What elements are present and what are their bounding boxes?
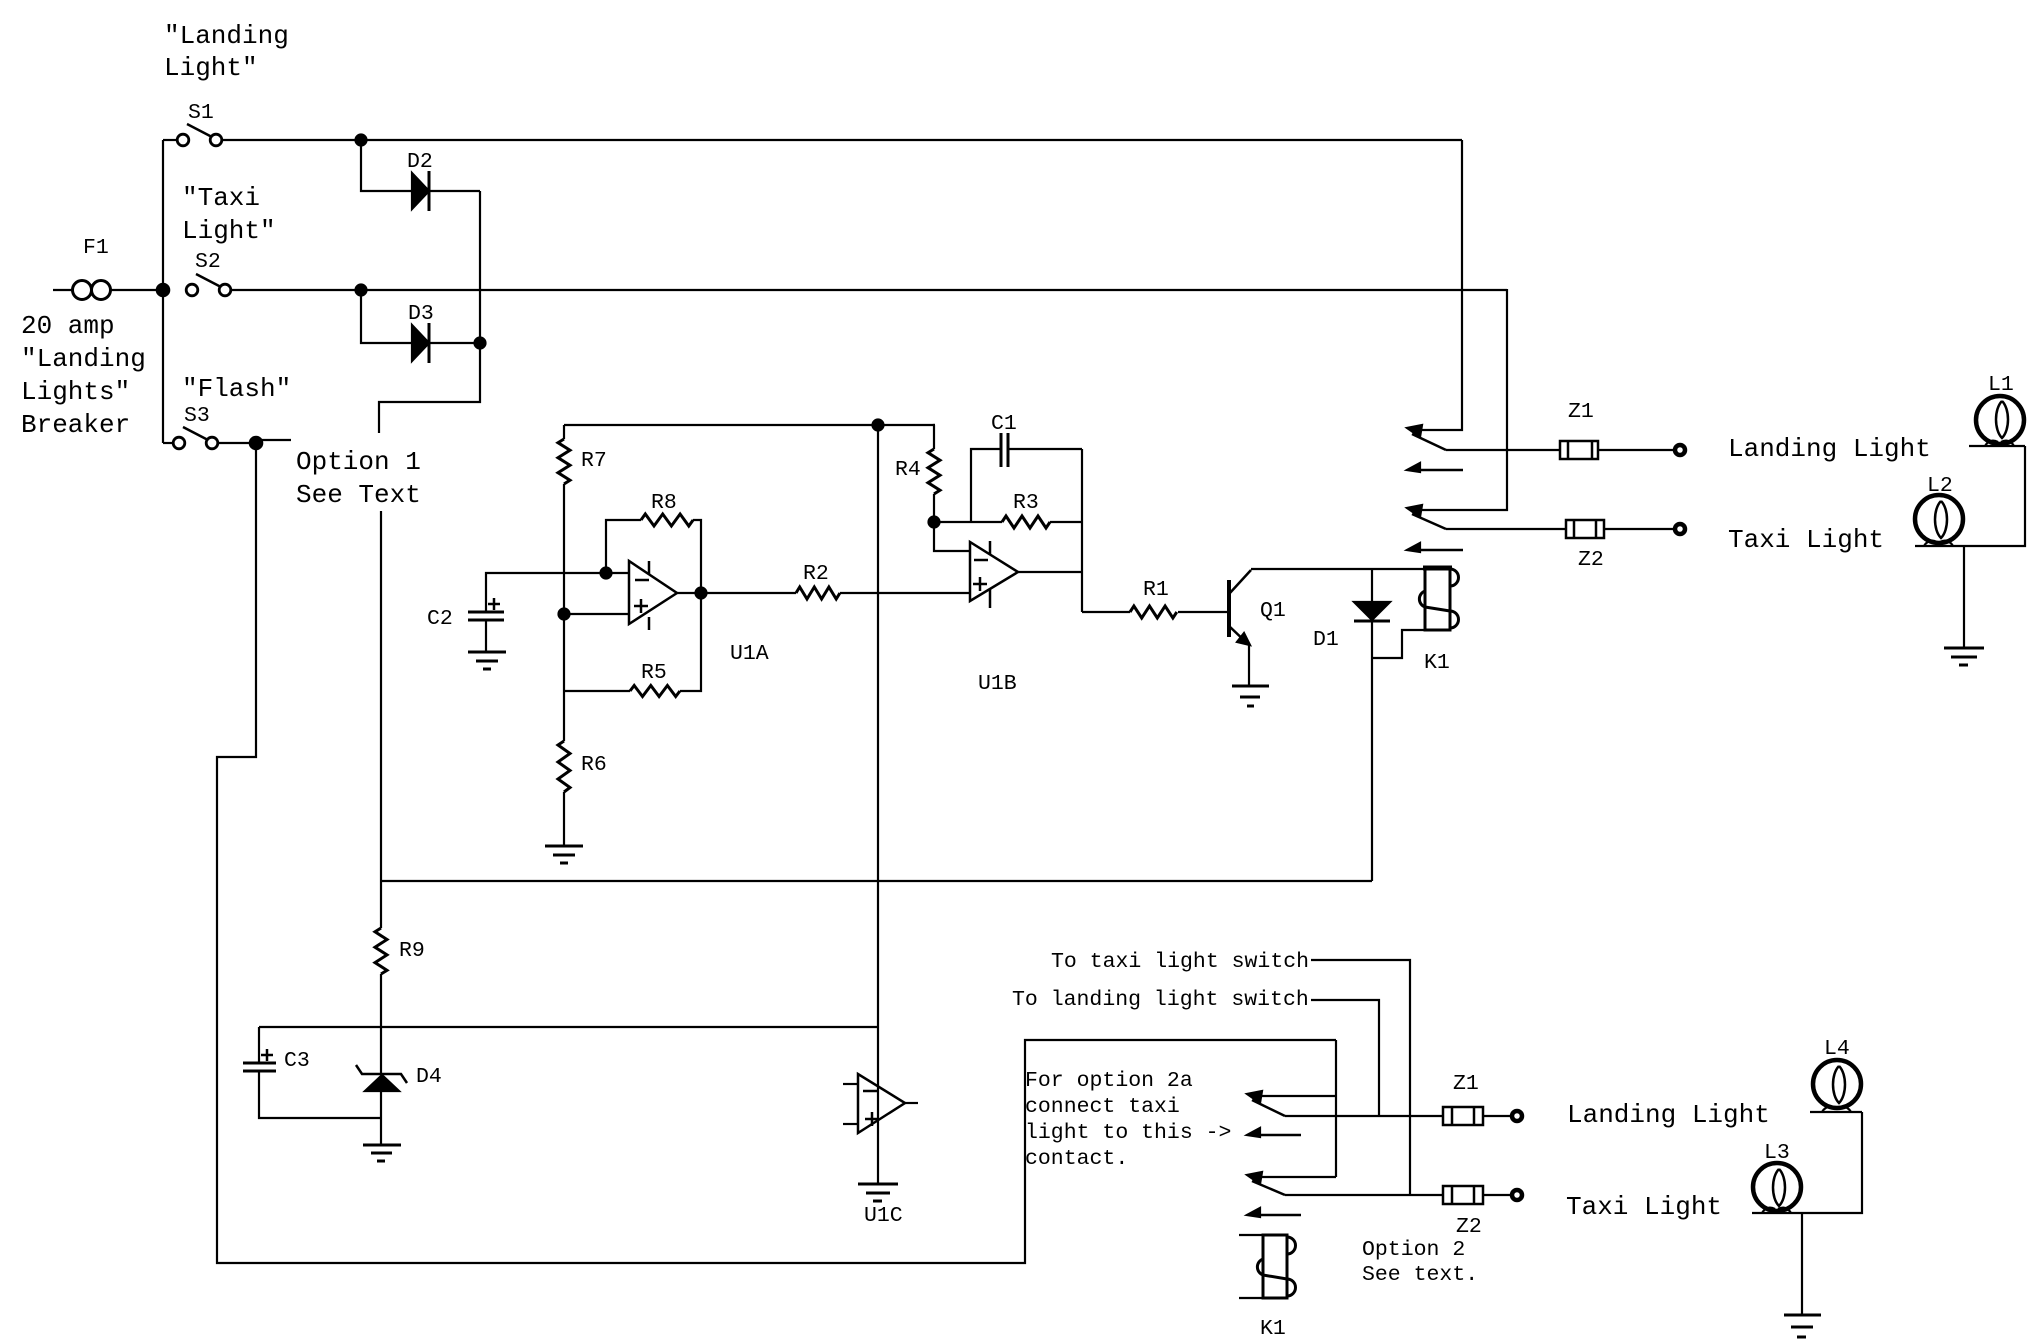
label U1B (978, 672, 1017, 696)
svg-text:For option 2a: For option 2a (1025, 1069, 1193, 1093)
label D2 (407, 150, 433, 174)
svg-text:Light": Light" (182, 216, 276, 246)
relay K1 contact 1 arm (1412, 434, 1446, 450)
label S2 (195, 250, 221, 274)
node S1 D2 tap (356, 135, 367, 146)
fuse Z1 (1560, 441, 1598, 459)
op-amp U1C (858, 1074, 905, 1133)
node U1A output junction (696, 588, 707, 599)
node R8 left junction (601, 568, 612, 579)
svg-text:R3: R3 (1013, 491, 1039, 515)
wire U1C long vertical (877, 425, 879, 1184)
svg-text:Z2: Z2 (1456, 1215, 1482, 1239)
fuse Z2 (1566, 520, 1604, 538)
label C1 (991, 412, 1017, 436)
label F1 (83, 236, 109, 260)
ground lamps L1 L2 (1944, 648, 1984, 665)
node S2 D3 tap (356, 285, 367, 296)
wire R9 to D4 (380, 974, 382, 1074)
node bus input junction (157, 284, 169, 296)
wire contact 2 to Z2 (1446, 528, 1566, 530)
wire U1A plus input (564, 613, 629, 615)
wire input left stub (53, 289, 73, 291)
wire U1C output stub (905, 1102, 918, 1104)
wire to R1 (1082, 611, 1130, 613)
relay K1 fixed contact 1 (1407, 463, 1420, 472)
label D3 (408, 302, 434, 326)
svg-text:D3: D3 (408, 302, 434, 326)
wire U1A output (677, 592, 796, 594)
svg-text:Landing Light: Landing Light (1728, 434, 1931, 464)
label R9 (399, 939, 425, 963)
svg-text:D1: D1 (1313, 628, 1339, 652)
svg-text:See Text: See Text (296, 480, 421, 510)
svg-text:F1: F1 (83, 236, 109, 260)
label R1 (1143, 578, 1169, 602)
wire diode cathode bus down to option jog (379, 191, 480, 433)
label "Landing Light" switch name (164, 21, 289, 83)
label "Taxi Light" switch name (182, 183, 276, 246)
relay fixed contact 3 (1247, 1128, 1260, 1137)
label To taxi light switch (1051, 950, 1309, 974)
wire D2 cathode (429, 190, 480, 192)
wire bus to S1 (163, 139, 178, 141)
terminal landing light lower (1512, 1111, 1522, 1121)
wire D1 K1 return row (381, 880, 1372, 882)
label R7 (581, 449, 607, 473)
label R3 (1013, 491, 1039, 515)
svg-text:S1: S1 (188, 101, 214, 125)
relay coil K1 (1419, 568, 1458, 630)
resistor R7 (563, 425, 565, 439)
zener diode D4 (356, 1065, 407, 1083)
svg-text:Taxi Light: Taxi Light (1728, 525, 1884, 555)
wire lamp ground drop (1963, 546, 1965, 648)
terminal taxi light lower (1512, 1190, 1522, 1200)
svg-text:R1: R1 (1143, 578, 1169, 602)
svg-text:C3: C3 (284, 1049, 310, 1073)
wire K1 lower coil leads (1239, 1234, 1263, 1236)
wire contact 4 to Z2 (1285, 1194, 1443, 1196)
wire option 1 vertical to R9 (380, 511, 382, 928)
resistor R5 (564, 690, 630, 692)
ground lamps L3 L4 (1784, 1315, 1821, 1337)
label Landing Light (1728, 434, 1931, 464)
op-amp U1B (970, 542, 1018, 601)
label R5 (641, 661, 667, 685)
op-amp U1A (629, 561, 677, 624)
svg-text:S2: S2 (195, 250, 221, 274)
wire to landing light switch (1311, 1000, 1379, 1116)
wire C1 top right (1008, 448, 1082, 450)
resistor R4 (934, 425, 935, 449)
diode D3 (412, 325, 429, 361)
svg-text:K1: K1 (1424, 651, 1450, 675)
resistor R6 (563, 691, 565, 741)
wire S1 output row (223, 139, 1462, 141)
svg-text:Z2: Z2 (1578, 548, 1604, 572)
svg-text:Landing Light: Landing Light (1567, 1100, 1770, 1130)
node D2 D3 cathode junction (475, 338, 486, 349)
svg-text:C1: C1 (991, 412, 1017, 436)
wire Z2 to terminal (1604, 528, 1673, 530)
svg-text:S3: S3 (184, 404, 210, 428)
svg-text:20 amp: 20 amp (21, 311, 115, 341)
wire option 2 relay common vertical (1335, 1040, 1337, 1177)
label D4 (416, 1065, 442, 1089)
svg-text:Option 2: Option 2 (1362, 1238, 1465, 1262)
label "Flash" switch name (182, 374, 291, 404)
svg-text:To landing light switch: To landing light switch (1012, 988, 1309, 1012)
wire left bus vertical (162, 140, 164, 443)
wire option 2 NC contact 2 (1253, 1176, 1336, 1178)
svg-text:"Landing: "Landing (21, 344, 146, 374)
node S3 junction (250, 437, 262, 449)
svg-text:R6: R6 (581, 753, 607, 777)
node U1A plus input junction (559, 609, 570, 620)
wire D3 cathode (429, 342, 480, 344)
svg-text:"Landing: "Landing (164, 21, 289, 51)
wire D2 anode drop (361, 140, 412, 191)
capacitor C1 (1000, 433, 1003, 467)
svg-text:Lights": Lights" (21, 377, 130, 407)
relay K1 contact 2 arm (1412, 514, 1446, 529)
svg-text:R4: R4 (895, 458, 921, 482)
label U1C (864, 1204, 903, 1228)
relay coil K1 lower (1257, 1235, 1295, 1298)
wire S1 row drop to relay contact 1 (1411, 140, 1462, 430)
wire S2 row drop to relay contact 2 (1411, 289, 1507, 510)
label L4 (1824, 1037, 1850, 1061)
relay contact 4 arm (1252, 1181, 1285, 1195)
wire K1 coil return (1372, 630, 1425, 658)
wire Q1 collector row (1251, 568, 1425, 570)
wire F1 to bus (110, 289, 163, 291)
svg-text:Breaker: Breaker (21, 410, 130, 440)
wire D3 anode drop (361, 290, 412, 343)
wire to taxi light switch (1311, 960, 1410, 1195)
terminal landing light (1675, 445, 1685, 455)
svg-text:U1B: U1B (978, 672, 1017, 696)
lamp L4 (1813, 1060, 1861, 1108)
label L2 (1927, 474, 1953, 498)
label 20 amp "Landing Lights" Breaker (21, 311, 146, 440)
svg-text:Z1: Z1 (1453, 1072, 1479, 1096)
ground U1C (858, 1184, 898, 1201)
svg-text:R7: R7 (581, 449, 607, 473)
wire Z2 lower to terminal (1483, 1194, 1511, 1196)
wire contact 1 to Z1 (1446, 449, 1560, 451)
capacitor C2 (468, 611, 504, 614)
relay contact 3 arm (1252, 1100, 1285, 1116)
svg-text:See text.: See text. (1362, 1263, 1478, 1287)
label Taxi Light lower (1566, 1192, 1722, 1222)
wire Z1 lower to terminal (1483, 1115, 1511, 1117)
resistor R2 (796, 587, 840, 599)
label C3 (284, 1049, 310, 1073)
wire option 2 NC contact 1 (1253, 1095, 1336, 1097)
svg-text:R2: R2 (803, 562, 829, 586)
label L1 (1988, 373, 2014, 397)
label C2 (427, 607, 453, 631)
wire S2 output row (231, 289, 1507, 291)
svg-text:D4: D4 (416, 1065, 442, 1089)
label R2 (803, 562, 829, 586)
wire C2 to inverting input (486, 573, 629, 612)
switch S1 (177, 134, 189, 146)
svg-text:D2: D2 (407, 150, 433, 174)
wire junction to U1B minus input (934, 522, 970, 551)
resistor R1 (1130, 606, 1177, 618)
relay K1 contact 1 arrowhead (1407, 425, 1422, 437)
label S1 (188, 101, 214, 125)
svg-text:Light": Light" (164, 53, 258, 83)
label R6 (581, 753, 607, 777)
wire L4 bottom (1810, 1111, 1862, 1113)
svg-text:R9: R9 (399, 939, 425, 963)
label R8 (651, 491, 677, 515)
svg-text:To taxi light switch: To taxi light switch (1051, 950, 1309, 974)
wire lamp L3 L4 ground drop (1801, 1213, 1803, 1315)
label U1A (730, 642, 769, 666)
label R4 (895, 458, 921, 482)
svg-text:light to this ->: light to this -> (1025, 1121, 1231, 1145)
node R4 bottom junction (929, 517, 940, 528)
wire U1C plus stub (843, 1123, 858, 1125)
wire L3 feet (1762, 1208, 1775, 1213)
switch S2 (186, 284, 198, 296)
wire C3 D4 top row (259, 1026, 878, 1028)
transistor Q1 (1227, 580, 1231, 637)
wire S3 flash loop (217, 443, 1336, 1263)
wire S3 output (218, 442, 256, 444)
svg-text:L2: L2 (1927, 474, 1953, 498)
svg-text:R8: R8 (651, 491, 677, 515)
svg-text:L1: L1 (1988, 373, 2014, 397)
wire R7 to plus input (563, 484, 565, 691)
svg-text:Z1: Z1 (1568, 400, 1594, 424)
wire option 1 stub (257, 440, 291, 443)
wire L1 to L2 row (1915, 446, 2025, 546)
label Taxi Light (1728, 525, 1884, 555)
wire L4 to L3 row (1752, 1112, 1862, 1213)
label Option 2 See text (1362, 1238, 1478, 1287)
svg-text:L4: L4 (1824, 1037, 1850, 1061)
label Z2 lower (1456, 1215, 1482, 1239)
svg-text:U1C: U1C (864, 1204, 903, 1228)
label Z1 (1568, 400, 1594, 424)
label C2 plus (488, 598, 500, 610)
svg-text:K1: K1 (1260, 1317, 1286, 1341)
relay K1 fixed contact 2 (1407, 543, 1420, 552)
svg-text:R5: R5 (641, 661, 667, 685)
diode D1 (1371, 569, 1373, 602)
node supply rail to U1C tap (873, 420, 884, 431)
wire contact 3 to Z1 (1285, 1115, 1443, 1117)
terminal taxi light (1675, 524, 1685, 534)
label D1 (1313, 628, 1339, 652)
wire bus to S3 (163, 442, 173, 444)
svg-text:contact.: contact. (1025, 1147, 1128, 1171)
diode D2 (412, 173, 429, 209)
label For option 2a note (1025, 1069, 1231, 1171)
wire Q1 emitter to ground (1248, 645, 1250, 686)
fuse Z1 lower (1443, 1107, 1483, 1125)
label Z1 lower (1453, 1072, 1479, 1096)
svg-text:U1A: U1A (730, 642, 769, 666)
label Q1 (1260, 599, 1286, 623)
svg-text:"Taxi: "Taxi (182, 183, 260, 213)
capacitor C3 (258, 1027, 260, 1063)
label Option 1 See Text (296, 447, 421, 510)
label Landing Light lower (1567, 1100, 1770, 1130)
label L3 (1764, 1141, 1790, 1165)
wire R3 row (934, 521, 1002, 523)
fuse Z2 lower (1443, 1186, 1483, 1204)
svg-text:Option 1: Option 1 (296, 447, 421, 477)
svg-text:"Flash": "Flash" (182, 374, 291, 404)
wire U1B feedback vertical (1081, 449, 1083, 612)
svg-text:Taxi Light: Taxi Light (1566, 1192, 1722, 1222)
svg-text:connect taxi: connect taxi (1025, 1095, 1180, 1119)
ground Q1 (1232, 686, 1269, 706)
relay contact 3 arrowhead (1247, 1091, 1262, 1103)
label K1 (1424, 651, 1450, 675)
lamp L2 (1915, 495, 1963, 543)
breaker F1 (73, 281, 111, 300)
wire L1 bottom (1969, 445, 2025, 447)
switch S3 (173, 437, 185, 449)
lamp L3 (1753, 1163, 1801, 1211)
label S3 (184, 404, 210, 428)
wire U1C minus stub (843, 1083, 858, 1085)
label C3 plus (261, 1049, 273, 1061)
label Z2 (1578, 548, 1604, 572)
svg-text:Q1: Q1 (1260, 599, 1286, 623)
ground C2 (468, 652, 506, 669)
wire L2 feet (1924, 541, 1937, 546)
relay contact 4 arrowhead (1247, 1172, 1262, 1184)
resistor R8 (606, 520, 641, 573)
relay K1 contact 2 arrowhead (1407, 505, 1422, 517)
lamp L1 (1976, 396, 2024, 444)
svg-text:L3: L3 (1764, 1141, 1790, 1165)
wire top supply rail (564, 424, 935, 426)
ground D4 (363, 1145, 401, 1161)
label To landing light switch (1012, 988, 1309, 1012)
label K1 lower (1260, 1317, 1286, 1341)
svg-text:C2: C2 (427, 607, 453, 631)
resistor R3 (1002, 516, 1050, 528)
wire U1B output (1018, 571, 1082, 573)
capacitor C1 loop left (971, 449, 1001, 522)
relay fixed contact 4 (1247, 1208, 1260, 1217)
ground R6 (545, 846, 583, 863)
resistor R9 (375, 928, 387, 974)
wire Z1 to terminal (1598, 449, 1673, 451)
